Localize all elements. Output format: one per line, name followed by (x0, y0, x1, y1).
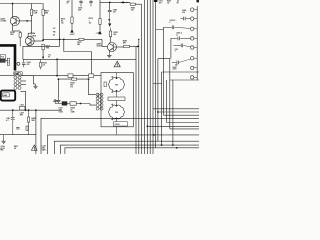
resistor low b (26, 126, 28, 130)
box T501 shield (101, 73, 133, 127)
label R58x (173, 67, 177, 71)
capacitor C437 block (62, 102, 67, 106)
node grid 2 (172, 144, 174, 146)
label bottom text 1 (0, 145, 4, 152)
svg-text:T12: T12 (1, 57, 4, 59)
wire nest 1 (41, 118, 199, 154)
label AD inner (3, 93, 9, 97)
capacitor C583 (173, 44, 190, 48)
wire R511 stub (31, 4, 33, 10)
node grid 6 (161, 144, 163, 146)
wire R578 to Q580 (110, 37, 112, 43)
connector PG501 (96, 93, 103, 110)
wire row y72 (162, 72, 199, 145)
resistor R519 (42, 44, 44, 50)
label C578 (78, 8, 82, 12)
node junction top rail (12, 3, 14, 5)
svg-text:680: 680 (77, 44, 80, 46)
capacitor C577 (89, 0, 92, 7)
label C437 (59, 107, 63, 114)
wire nest 5 (65, 148, 199, 154)
label R516 (10, 32, 15, 36)
label C581-4 (176, 31, 182, 36)
node Q504 base (42, 39, 44, 41)
wire pin stubs (194, 10, 197, 78)
component box b (89, 74, 94, 78)
svg-text:Y5011: Y5011 (115, 124, 120, 126)
label bottom text 3 (42, 146, 46, 152)
resistor R522 (40, 59, 42, 69)
wire row y79.1 (58, 78, 88, 80)
label R409 (31, 117, 35, 122)
ground bottom left (1, 135, 5, 144)
wire R511 bottom to base node (31, 15, 33, 21)
wire row y75.7 (21, 75, 101, 77)
pin circle 5 (191, 46, 194, 49)
ground Q580 (107, 53, 111, 57)
wire x109.7 down (109, 2, 111, 10)
resistor R409 (28, 110, 30, 135)
wire nest 3 (54, 141, 199, 154)
node x59.6 (59, 39, 61, 41)
wire grid h y115.2 (164, 114, 200, 116)
label Q580 (97, 44, 103, 48)
node Y501 bottom (111, 118, 117, 122)
component box a (68, 74, 73, 78)
label R511 (33, 11, 38, 15)
node grid 1 (153, 134, 155, 136)
wire Q503 emitter (13, 26, 21, 33)
transistor Q503 (10, 16, 19, 26)
wire Q580 out (117, 46, 124, 48)
node x63.8 (63, 39, 65, 41)
label top right 2 (167, 1, 171, 5)
wire nest 4 (60, 145, 199, 154)
wire to arrow1 (71, 23, 73, 29)
label R517 (45, 11, 50, 15)
resistor R578 (109, 31, 111, 37)
wire top rail corner (42, 4, 44, 10)
component L402 (19, 104, 25, 110)
svg-text:150: 150 (182, 12, 185, 14)
svg-text:1/6: 1/6 (61, 23, 64, 25)
wire bus x147.4 (146, 0, 148, 154)
wire feed x163.5 (163, 27, 165, 115)
wire Q504 emitter down (27, 44, 29, 47)
node bus tee (138, 39, 139, 40)
node AD route (25, 109, 27, 111)
svg-text:10/16: 10/16 (59, 112, 63, 114)
label PG501 vertical (98, 93, 100, 98)
resistor R516 (19, 33, 21, 38)
label +B 1 (70, 34, 76, 36)
wire row y83.4 (153, 82, 162, 84)
capacitor C582 (171, 37, 191, 41)
svg-text:C2785: C2785 (0, 21, 7, 23)
node row y103.5 (80, 103, 82, 105)
capacitor C562 (22, 59, 25, 67)
label C583 (175, 49, 178, 53)
node y110 c (35, 109, 37, 111)
wire R580 feed (135, 3, 141, 5)
wire bus x153 (152, 0, 154, 154)
svg-text:1/6: 1/6 (70, 86, 73, 88)
resistor R580 (130, 3, 135, 5)
wire x58.4 down (57, 79, 59, 98)
svg-text:1/4W: 1/4W (42, 149, 46, 152)
label C580 (113, 10, 117, 14)
svg-text:+8.2V: +8.2V (70, 34, 76, 36)
pin circle 3 (191, 27, 194, 30)
capacitor C585 (172, 59, 190, 64)
wire Q503 collector (12, 4, 14, 17)
node shield bottom (56, 58, 58, 60)
svg-text:3.9K: 3.9K (33, 13, 38, 15)
wire feed x170.9 (170, 38, 172, 58)
resistor R581 (99, 19, 101, 25)
svg-text:1/4W: 1/4W (71, 111, 75, 114)
svg-text:100: 100 (113, 12, 116, 14)
resistor R575 (79, 38, 84, 40)
node T501 top (111, 73, 117, 79)
connector PW501 (14, 73, 21, 90)
supply arrow +14V (98, 31, 101, 35)
svg-text:401: 401 (113, 33, 116, 36)
wire box corner B (158, 59, 170, 129)
ground left (33, 84, 37, 88)
wire coil link (108, 97, 125, 101)
svg-text:T50: T50 (115, 85, 118, 87)
wire grid v x157.9 (157, 59, 159, 142)
capacitor inside box (104, 82, 106, 87)
warning triangle (114, 61, 120, 67)
svg-text:150: 150 (131, 10, 134, 12)
pin circle 6 (191, 57, 194, 60)
svg-text:C1815: C1815 (31, 35, 37, 37)
label R581 left (89, 18, 93, 24)
wire x100 down (99, 0, 101, 19)
resistor R511 (30, 9, 32, 15)
node y79.1 right (88, 78, 90, 80)
wire bus x144.6 (144, 0, 146, 154)
resistor R438 (70, 102, 76, 105)
label R573 left (61, 18, 65, 24)
wire Q504 base to node (34, 40, 43, 42)
label +14V (96, 32, 102, 35)
capacitor C410 (11, 110, 15, 135)
svg-text:PG501: PG501 (98, 93, 100, 98)
wire feed x166.6 (166, 80, 168, 123)
warning triangle bottom (31, 145, 37, 150)
label box bottom (114, 122, 128, 126)
wire L drop (64, 39, 92, 75)
pin circle 2 (191, 17, 194, 20)
svg-text:6-4%: 6-4% (173, 68, 177, 71)
coil T501 scalloped (109, 78, 125, 92)
resistor R582 (124, 45, 130, 47)
label C410 (6, 117, 10, 122)
node Y501 top (111, 101, 117, 107)
wire R582 right (130, 45, 139, 47)
transistor Q580 (108, 42, 117, 51)
node top cap (109, 2, 111, 4)
wire shield box top (23, 45, 60, 47)
wire R516 to shield (19, 37, 21, 46)
wire shield box bottom (23, 58, 136, 60)
component MW block (0, 59, 5, 62)
node grid 4 (176, 147, 178, 149)
pin circle (17, 62, 20, 65)
label T501 (115, 85, 118, 87)
capacitor C576 (79, 0, 82, 7)
wire grid h y122.5 (167, 122, 199, 124)
label Y501 (115, 112, 118, 114)
wire AD route (20, 91, 25, 110)
wire row y110.2 (0, 109, 62, 111)
svg-text:3: 3 (175, 51, 176, 53)
label Q504 (31, 32, 37, 37)
wire gnd branch (34, 76, 36, 84)
label R580 (131, 8, 135, 12)
svg-text:4R7: 4R7 (123, 42, 126, 45)
capacitor C584 (181, 17, 191, 21)
wire grid h y108.8 (153, 108, 199, 110)
wire vertical x59.6 (59, 0, 61, 46)
node out (137, 46, 139, 48)
module box AD (1, 91, 15, 101)
wire R581 down (99, 24, 101, 30)
label L402 value (20, 112, 24, 117)
svg-text:TH8: TH8 (46, 48, 50, 50)
wire Q580 emitter (108, 52, 110, 54)
wire bus x141.6 (141, 4, 143, 154)
label R438 (71, 107, 75, 114)
svg-text:A1015: A1015 (97, 45, 103, 48)
transistor Q504 (25, 36, 34, 45)
wire bus x155.7 (155, 2, 157, 148)
wire bus x138.8 (138, 39, 140, 154)
pin circle 4 (191, 37, 194, 40)
label R578 (113, 32, 117, 36)
node y110 a (12, 109, 14, 111)
resistor R517 (42, 9, 44, 15)
capacitor C580 (108, 10, 112, 17)
label Q503 (0, 19, 7, 23)
svg-text:470: 470 (27, 63, 30, 66)
wire x35.9 down (35, 110, 37, 154)
wire row y134.7 (0, 134, 36, 136)
wire grid v x172.9 (172, 80, 174, 145)
label C584 (182, 9, 186, 14)
wire x72 stack (71, 0, 73, 17)
capacitor C581 (164, 26, 191, 30)
wire nest 2 (48, 135, 199, 154)
label top right 1 (159, 1, 163, 5)
coil Y501 scalloped (109, 105, 125, 119)
node R519 bottom (42, 56, 44, 58)
wire to Q504 (28, 21, 31, 37)
svg-text:4R7: 4R7 (20, 114, 23, 117)
resistor R478 (72, 78, 77, 80)
wire Q503 base (20, 20, 32, 22)
node grid 5 (157, 111, 159, 113)
wire stub y29.6 (156, 29, 164, 31)
wire R517 down (42, 15, 44, 40)
wire feed x173.4 (172, 44, 174, 46)
label boxes GND (14, 72, 22, 76)
label top right 3 (177, 1, 180, 5)
label C562 (27, 62, 31, 66)
wire bus x150.2 (149, 0, 151, 154)
label R519 (46, 46, 51, 50)
label FB (108, 20, 111, 22)
capacitor low a (16, 128, 19, 129)
node y110 b (28, 109, 30, 111)
pin circle 8 (191, 76, 194, 79)
svg-text:4.7: 4.7 (6, 119, 8, 122)
label signals (53, 28, 56, 36)
corner blob (197, 0, 199, 2)
svg-text:150: 150 (159, 3, 162, 5)
pin circle 1 (191, 8, 194, 11)
resistor RV tall (7, 58, 9, 65)
resistor R573 (71, 17, 73, 23)
label arrow (4, 60, 7, 61)
pin circle 7 (191, 66, 194, 69)
wire pin rail (196, 6, 198, 80)
flow arrow (120, 1, 128, 3)
wire shield box left (22, 46, 24, 59)
wire FB (109, 18, 111, 24)
wire grid h y126.3 (147, 125, 199, 127)
wire R519 down (42, 50, 44, 60)
label C581-2 (170, 20, 176, 24)
label bottom text 2 (14, 145, 18, 150)
ground wire end (53, 99, 57, 103)
label R522 (43, 63, 47, 67)
node y79.1 left (58, 78, 60, 80)
shield thick trace (0, 45, 15, 70)
wire x57.1 down (56, 59, 58, 75)
ground mid (56, 98, 60, 102)
wire top rail (0, 3, 43, 5)
wire main row y39.4 (43, 38, 102, 40)
svg-text:L402: L402 (20, 104, 24, 107)
label 4A (175, 64, 178, 67)
wire row y80 (170, 79, 199, 81)
wire base Q580 (102, 39, 107, 46)
wire row y103.5 (55, 104, 96, 106)
svg-text:+1.4V: +1.4V (96, 32, 102, 35)
label left stub (48, 54, 50, 59)
down arrow FB (108, 23, 111, 26)
svg-text:Y50: Y50 (115, 112, 118, 114)
wire connector rows right (21, 76, 33, 85)
supply arrow 1 (70, 29, 73, 33)
node base junction (26, 20, 28, 22)
wire to R578 (110, 28, 112, 32)
svg-text:5.6: 5.6 (43, 65, 46, 67)
wire bus x136 (135, 46, 137, 154)
wire pin stub (16, 63, 18, 65)
wire top y2.4 (100, 1, 130, 3)
wire grid h y128.9 (170, 128, 199, 130)
wire connector row1 left (0, 75, 14, 77)
node grid 3 (147, 125, 149, 127)
wire Y501 to nest (116, 127, 118, 135)
node y75.7 a (56, 75, 58, 77)
label R478 (70, 81, 74, 88)
label R582 (123, 41, 127, 45)
label R575 (77, 42, 81, 46)
label B stack text (67, 1, 70, 5)
wire x88.5 to connector (89, 79, 96, 95)
component top blob (154, 0, 157, 2)
label CT12 box (0, 55, 6, 59)
node T501 bottom (111, 90, 117, 97)
svg-text:1/2: 1/2 (89, 22, 92, 24)
wire grid h y112 (158, 111, 199, 113)
